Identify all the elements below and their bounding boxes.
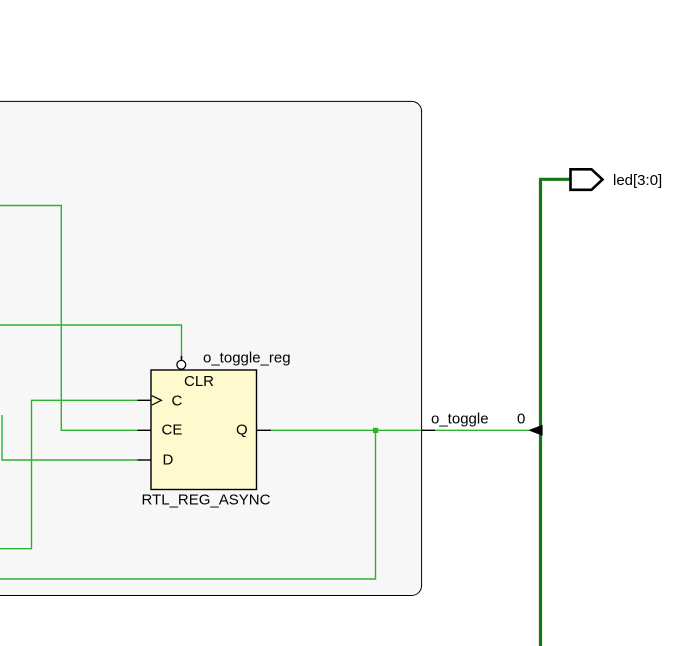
arrowhead into led bus [528, 425, 543, 436]
svg-text:led[3:0]: led[3:0] [613, 172, 662, 189]
svg-text:D: D [163, 452, 174, 469]
module boundary (hierarchical block, clipped at left) [0, 101, 422, 595]
pin stub D [138, 459, 152, 461]
led[3:0] bus (thick dark green) [541, 179, 571, 646]
CLR inverter bubble [177, 360, 186, 369]
wire Q output net (Q pin to boundary) [271, 429, 422, 431]
wire CLR net (from left edge to CLR bubble) [0, 325, 182, 356]
pin stub CE [138, 429, 152, 431]
svg-text:Q: Q [236, 422, 248, 439]
clock input triangle on C pin [152, 396, 162, 405]
register U1 body (RTL_REG_ASYNC) [151, 370, 257, 490]
svg-text:CE: CE [162, 422, 183, 439]
wire CE net (from left edge down to CE pin) [0, 206, 138, 431]
svg-text:CLR: CLR [184, 373, 214, 390]
module port stub (black, outside boundary) [422, 429, 436, 431]
wire clock net (from bottom-left to C pin) [0, 400, 138, 548]
svg-text:o_toggle: o_toggle [431, 411, 489, 428]
pin stub C [138, 399, 152, 401]
svg-text:C: C [172, 393, 183, 410]
CLR pin stub (black, above bubble) [181, 356, 183, 363]
junction dot on Q net [373, 428, 378, 433]
svg-text:0: 0 [517, 411, 525, 428]
output port symbol led[3:0] [571, 169, 603, 190]
wire o_toggle net (stub end to bus arrowhead) [435, 429, 529, 431]
wire D net (from left edge to D pin) [2, 415, 138, 460]
svg-text:o_toggle_reg: o_toggle_reg [203, 350, 291, 367]
wire feedback net (junction down and left off-screen) [0, 430, 376, 579]
svg-text:RTL_REG_ASYNC: RTL_REG_ASYNC [142, 492, 271, 509]
pin stub Q [257, 429, 272, 431]
